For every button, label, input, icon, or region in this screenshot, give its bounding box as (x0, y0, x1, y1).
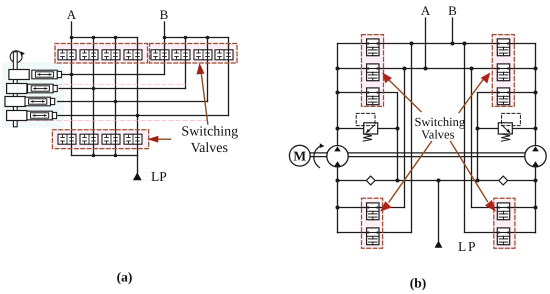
annotation arrow to top-right stack (459, 73, 490, 113)
wire B down-lead (164, 22, 166, 38)
switching valve BV2 (367, 64, 379, 81)
wire top bus (b) (338, 43, 536, 45)
wire vertical V2 (A side) (93, 38, 95, 156)
cylinder 1 (32, 70, 62, 79)
wire A lead (b) (425, 18, 427, 69)
wire left lower trunk (337, 167, 339, 233)
rotation arc arrowhead (320, 143, 325, 148)
crank circle (10, 51, 22, 63)
cylinder 3 (25, 97, 55, 106)
cylinder line 1 (61, 74, 165, 76)
crank block 1 (9, 70, 29, 80)
svg-text:LP: LP (458, 239, 477, 254)
switching valve BV5 (497, 64, 509, 81)
node dot bus B j2 (184, 36, 188, 40)
cylinder line 2 (59, 88, 185, 90)
LP bus (a) (72, 155, 138, 157)
switching valve BV1 (367, 39, 379, 56)
node dot cyl3-V3 (114, 100, 118, 104)
annotation arrow to bottom-left stack (380, 142, 431, 212)
crank block 2 (7, 84, 27, 94)
svg-text:(b): (b) (410, 276, 427, 291)
switching valve SV11 (102, 134, 120, 144)
shaft pump1 to pump2 (348, 153, 524, 157)
switching valve SV3 (102, 50, 120, 60)
cylinder line 4 (58, 115, 229, 117)
annotation arrow to top row (197, 63, 208, 124)
wire vertical V8 (B side) (228, 38, 230, 116)
relief valve left (356, 113, 378, 141)
wire bottom-left valve2 (338, 232, 412, 234)
dashed stack box top-right (492, 35, 514, 107)
wire mid bus A (b) (338, 68, 536, 70)
rotation arc (314, 146, 321, 168)
cyan tint behind crank mechanism (2, 62, 64, 128)
switching valve SV8 (215, 50, 233, 60)
cylinder 2 (28, 84, 58, 93)
magenta dashed unit line 1 (22, 84, 186, 86)
node dot LP bus j1 (92, 154, 96, 158)
svg-text:(a): (a) (117, 270, 133, 285)
node dot bus B j3 (206, 36, 210, 40)
wire inner drop L2 (411, 44, 413, 233)
wire third bus right segment (478, 93, 536, 181)
wire vertical V6 (B side) (185, 38, 187, 89)
wire LP drop (b) (438, 181, 440, 241)
pink highlight bottom-right stack (493, 198, 517, 250)
wire vertical V7 (B side) (207, 38, 209, 102)
wire bottom-left valve1 (338, 207, 405, 209)
relief valve left: line (338, 128, 398, 130)
relief valve right: line (478, 128, 536, 130)
cylinder line 3 (58, 101, 208, 103)
switching valve SV10 (80, 134, 98, 144)
switching valve SV1 (58, 50, 76, 60)
check valve left (366, 176, 375, 185)
cylinder 4 (27, 111, 57, 120)
node dot bus A j3 (114, 36, 118, 40)
switching valve SV5 (151, 50, 169, 60)
crank block 4 (7, 111, 27, 121)
wire vertical V1 (A side) (71, 38, 73, 156)
shaft M to pump1 (310, 153, 327, 157)
pink highlight behind top-right valve group (149, 43, 239, 65)
switching valve BV10 (497, 228, 509, 245)
wire LP drop (a) (137, 156, 139, 174)
wire B lead (b) (452, 18, 454, 44)
wire right trunk (b) (535, 44, 537, 146)
node dot bus A j2 (92, 36, 96, 40)
svg-text:Valves: Valves (421, 128, 454, 142)
svg-text:A: A (421, 3, 431, 18)
wire third bus left segment (338, 93, 398, 181)
dashed stack box bottom-right (494, 198, 515, 248)
switching valve BV4 (497, 39, 509, 56)
pink highlight top-left stack (361, 34, 385, 108)
wire bottom-right valve2 (465, 232, 536, 234)
wire vertical V5 (B side) (164, 38, 166, 75)
pump P2 (525, 146, 546, 167)
node dot cyl4-V4 (136, 114, 140, 118)
dashed group box top-right (150, 44, 238, 64)
wire A down-lead (71, 22, 73, 38)
svg-text:A: A (67, 7, 77, 22)
switching valve SV9 (58, 134, 76, 144)
node dot bus A j1 (70, 36, 74, 40)
pink highlight top-right stack (492, 34, 516, 108)
wire vertical V4 (A side) (137, 38, 139, 156)
wire inner drop R2 (464, 44, 466, 233)
svg-text:B: B (448, 3, 457, 18)
switching valve BV7 (367, 203, 379, 220)
pump P1 (327, 146, 348, 167)
wire right lower trunk (535, 167, 537, 233)
rotation arrowhead (21, 51, 25, 56)
wire inner drop L3 (404, 69, 406, 208)
wire vertical V3 (A side) (115, 38, 117, 156)
wire LP line (b) (338, 180, 536, 182)
check valve right (499, 176, 508, 185)
node dot LP bus j2 (114, 154, 118, 158)
svg-text:M: M (293, 149, 306, 164)
switching valve BV3 (367, 88, 379, 105)
LP supply triangle (a) (133, 172, 142, 180)
pink highlight behind bottom valve group (52, 129, 150, 150)
switching valve BV6 (497, 88, 509, 105)
node dots (b) (336, 42, 538, 210)
wire inner drop R3 (471, 69, 473, 208)
switching valve SV12 (124, 134, 142, 144)
electric motor M (289, 145, 310, 166)
node dot cyl1-V1 (70, 73, 74, 77)
node dot bus B j1 (163, 36, 167, 40)
wire left trunk (b) (337, 44, 339, 146)
svg-text:Valves: Valves (191, 141, 228, 156)
switching valve BV9 (497, 203, 509, 220)
switching valve SV4 (124, 50, 142, 60)
svg-text:LP: LP (151, 169, 167, 184)
pink highlight behind top-left valve group (54, 43, 149, 65)
wire bottom-right valve1 (472, 207, 536, 209)
LP supply triangle (b) (435, 241, 443, 248)
switching valve SV7 (194, 50, 212, 60)
pink highlight bottom-left stack (361, 198, 385, 250)
svg-text:B: B (160, 7, 169, 22)
wire bus A (72, 37, 138, 39)
dashed group box top-left (55, 44, 148, 64)
crank block 3 (5, 97, 25, 107)
dashed stack box top-left (362, 35, 384, 107)
crank shaft (13, 52, 17, 127)
annotation arrow to bottom-right stack (451, 142, 496, 212)
svg-text:Switching: Switching (181, 125, 238, 140)
wire bus B (165, 37, 229, 39)
switching valve BV8 (367, 228, 379, 245)
switching valve SV6 (172, 50, 190, 60)
relief valve right (498, 113, 520, 141)
annotation arrow to top-left stack (382, 73, 421, 112)
dashed group box bottom (52, 130, 148, 149)
dashed stack box bottom-left (362, 198, 383, 248)
annotation arrow to bottom row (147, 136, 170, 143)
switching valve SV2 (80, 50, 98, 60)
magenta dashed unit line 2 (22, 120, 207, 122)
node dot cyl2-V2 (92, 87, 96, 91)
